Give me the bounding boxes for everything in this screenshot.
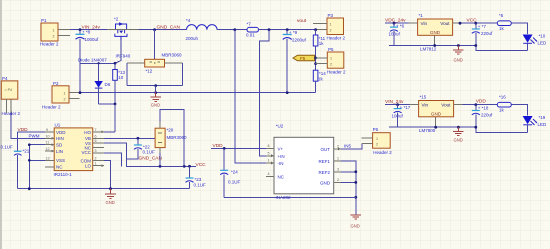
svg-text:LED: LED (538, 122, 548, 127)
svg-text:LED: LED (538, 41, 548, 46)
node C22 (137, 137, 140, 140)
pin U1 NC right (93, 147, 104, 149)
svg-text:VDC_24v: VDC_24v (385, 18, 406, 24)
svg-text:*U2: *U2 (276, 124, 284, 129)
svg-text:1: 1 (337, 157, 339, 161)
node GND_CAN (153, 28, 156, 31)
wire loop to rail (155, 86, 157, 93)
wire Q2 source jog (115, 40, 121, 63)
svg-text:2: 2 (330, 63, 332, 67)
pin reg1 Vout (453, 22, 462, 24)
svg-text:2: 2 (53, 35, 55, 39)
op-amp U2 INA282 (274, 124, 334, 200)
wire GND_CAN down to D12 (154, 30, 156, 60)
wire gnd rail 2 (389, 126, 476, 128)
pin U1 NC left (45, 166, 54, 168)
svg-text:5: 5 (268, 151, 270, 155)
ground row2 (453, 127, 464, 136)
wire ground rail (18, 188, 190, 190)
header P5 (327, 47, 346, 74)
svg-text:vout: vout (297, 18, 307, 24)
svg-text:REF2: REF2 (318, 170, 330, 175)
svg-text:2: 2 (376, 143, 378, 147)
wire VDC to Vin (385, 22, 409, 24)
pin U1.11 SD (45, 144, 54, 146)
header P3 (327, 13, 346, 41)
pin U1.1 LO (93, 165, 104, 167)
pin D12 left (127, 62, 145, 64)
svg-text:100uf: 100uf (389, 32, 401, 37)
sheet left edge (0, 0, 2, 249)
svg-text:VCC: VCC (467, 18, 478, 24)
svg-text:5: 5 (95, 139, 97, 143)
svg-text:*19: *19 (539, 115, 546, 120)
svg-text:Vout: Vout (441, 103, 451, 108)
svg-text:2200uf: 2200uf (292, 37, 307, 42)
svg-text:Vin: Vin (421, 21, 428, 26)
svg-text:Vin: Vin (422, 103, 429, 108)
pin P2.1 (69, 92, 80, 94)
wire VSS tie (29, 159, 45, 161)
pin U2 GND (334, 181, 341, 183)
wire VIN to Vin (385, 104, 410, 106)
svg-text:Header 2: Header 2 (40, 41, 59, 46)
ground mid (150, 93, 161, 102)
svg-text:LO: LO (85, 164, 92, 169)
svg-text:REF1: REF1 (318, 159, 330, 164)
svg-text:1k: 1k (318, 77, 324, 82)
wire VDD label U1 (18, 131, 45, 133)
svg-text:GND_CAN: GND_CAN (157, 25, 181, 31)
svg-text:*20: *20 (167, 128, 174, 133)
svg-text:1: 1 (53, 29, 55, 33)
svg-text:*21: *21 (23, 149, 30, 154)
ground U1 (105, 189, 116, 199)
svg-text:P1: P1 (41, 18, 47, 23)
pin U1.3 VCC (93, 152, 104, 154)
svg-text:P4: P4 (2, 76, 8, 81)
node HO riser (114, 103, 117, 106)
pin arrows U1 (52, 137, 55, 140)
resistor R13 10 (113, 63, 126, 104)
pin U1.13 VSS (45, 159, 54, 161)
svg-text:Header 2: Header 2 (327, 36, 346, 41)
svg-text:VDD: VDD (476, 98, 487, 104)
resistor R11 1k (313, 30, 325, 70)
svg-text:10: 10 (46, 134, 50, 138)
wire VS (104, 143, 196, 166)
node shunt right (268, 28, 271, 31)
svg-text:HIN: HIN (56, 136, 64, 141)
wire SD/VSS riser (28, 145, 30, 189)
svg-text:220uf: 220uf (481, 112, 493, 117)
svg-text:P2: P2 (53, 81, 59, 86)
svg-text:+ *17: + *17 (400, 105, 411, 110)
svg-text:1: 1 (268, 159, 270, 163)
capacitor C9 2200uf (283, 30, 307, 93)
svg-text:GND: GND (430, 30, 441, 35)
LED D19 (523, 115, 547, 133)
resistor R16 1k (497, 95, 511, 113)
wire LED return (476, 46, 528, 51)
node C24 (223, 147, 226, 150)
wire SD tie (29, 144, 45, 146)
svg-text:1: 1 (330, 23, 332, 27)
wire REF chain (341, 161, 356, 215)
pin U2 REF1 (334, 160, 341, 162)
wire R5 to LED (511, 23, 527, 34)
pin U1.5 VS (93, 142, 104, 144)
capacitor C21 0.1UF (1, 132, 30, 189)
svg-text:MBR3060: MBR3060 (162, 53, 183, 58)
svg-text:NC: NC (56, 165, 63, 170)
pin U2 V+ (266, 147, 274, 149)
svg-text:+ *18: + *18 (478, 106, 489, 111)
svg-text:VIN_24v: VIN_24v (385, 99, 404, 105)
svg-text:2: 2 (64, 97, 66, 101)
svg-text:6: 6 (95, 134, 97, 138)
diode D6 (94, 63, 110, 104)
svg-text:2: 2 (95, 156, 97, 160)
svg-text:3: 3 (337, 167, 339, 171)
capacitor C6 100uf (389, 23, 405, 45)
svg-text:*10: *10 (539, 33, 546, 38)
svg-text:= P4: = P4 (5, 88, 13, 92)
resistor R14 1k (313, 70, 326, 92)
pin D12 right (165, 62, 183, 64)
capacitor C22 0.1UF (127, 138, 163, 161)
svg-text:*2: *2 (114, 17, 119, 22)
pin U2 OUT (334, 148, 341, 150)
svg-text:VDD: VDD (18, 127, 29, 133)
transistor Q2 IRF940 (114, 17, 131, 59)
wire R7 to P3 (259, 29, 316, 31)
pin P4.2 (10, 99, 12, 113)
op-amp U1 IR2110-1 (54, 123, 93, 178)
svg-text:+ *9: + *9 (289, 30, 298, 35)
wire riser to HO (114, 104, 116, 132)
svg-text:GND: GND (106, 200, 115, 205)
node VIN_24v (79, 28, 82, 31)
svg-text:OUT: OUT (321, 147, 331, 152)
svg-text:*23: *23 (195, 177, 202, 182)
svg-text:2: 2 (337, 145, 339, 149)
pin P2.2 (69, 97, 80, 99)
svg-text:*1: *1 (419, 13, 424, 18)
svg-text:1k: 1k (319, 41, 325, 46)
wire bottom rail (224, 196, 356, 198)
node F5 (314, 57, 317, 60)
svg-text:2: 2 (337, 178, 339, 182)
svg-text:220uf: 220uf (481, 31, 493, 36)
pin reg1 GND (434, 35, 436, 45)
pin U1.7 HO (93, 131, 104, 133)
header P6 (373, 127, 393, 155)
svg-text:12: 12 (46, 147, 50, 151)
regulator U1 LM7812 (418, 13, 453, 51)
svg-text:VDD: VDD (56, 130, 66, 135)
wire D12 loop left (126, 63, 128, 85)
svg-text:VCC: VCC (81, 150, 91, 155)
svg-text:GND: GND (351, 224, 360, 229)
regulator U15 LM7800 (419, 95, 454, 133)
header P2 (42, 81, 69, 110)
svg-text:13: 13 (46, 156, 50, 160)
wire D6 bottom to R13 bottom (99, 103, 115, 105)
pin D20 bottom (159, 148, 161, 153)
wire Vout to R16 (463, 104, 498, 106)
wire D12 loop bottom (127, 85, 182, 87)
resistor R5 1k (497, 13, 511, 31)
svg-text:3: 3 (95, 149, 97, 153)
svg-text:GND_CAN: GND_CAN (139, 156, 163, 162)
header P1 (40, 18, 59, 46)
svg-text:*5: *5 (499, 13, 504, 18)
svg-text:Header 2: Header 2 (373, 150, 392, 155)
wire R16 to LED (511, 105, 527, 116)
svg-text:1: 1 (376, 137, 378, 141)
svg-text:SD: SD (56, 143, 63, 148)
svg-text:PWM: PWM (29, 133, 40, 138)
wire gnd rail 1 (389, 45, 476, 47)
resistor R7 0.01 (246, 22, 259, 38)
svg-text:11: 11 (46, 141, 50, 145)
pin reg2 Vout (454, 104, 463, 106)
svg-text:GND: GND (151, 103, 160, 108)
pin P5.1 (316, 57, 328, 59)
pin P5.2 (316, 63, 328, 65)
wire VCC pin (104, 153, 122, 166)
svg-text:2: 2 (330, 29, 332, 33)
capacitor C7 220uf (472, 23, 493, 45)
wire P4 to HIN (11, 113, 45, 138)
svg-text:GND: GND (320, 180, 331, 185)
svg-text:HO: HO (84, 130, 91, 135)
pin U1.2 COM (93, 159, 104, 161)
node C9 bottom (286, 91, 289, 94)
capacitor C17 100uf (392, 105, 411, 128)
pin U1.12 LIN (45, 150, 54, 152)
pin P3.2 (316, 29, 327, 31)
svg-text:P6: P6 (373, 127, 379, 132)
svg-text:+IN: +IN (278, 154, 285, 159)
pin U2 +IN (266, 155, 274, 157)
svg-text:*24: *24 (231, 169, 238, 174)
node Q2 source (114, 62, 117, 65)
pin U1.10 HIN (45, 137, 54, 139)
node D6 top (97, 62, 99, 64)
svg-text:IR2110-1: IR2110-1 (54, 172, 73, 177)
pin U2 -IN (266, 162, 274, 164)
pin reg1 Vin (409, 22, 418, 24)
diode pack D20 MBR3060 (155, 128, 187, 148)
svg-text:4: 4 (268, 172, 270, 176)
node P2 (79, 91, 82, 94)
svg-text:0.1UF: 0.1UF (143, 150, 156, 155)
svg-text:*15: *15 (420, 95, 427, 100)
wire sense minus (235, 30, 274, 163)
wire mid rail (80, 92, 287, 94)
ground row1 (453, 46, 464, 55)
svg-text:10: 10 (118, 75, 124, 80)
svg-text:0.1UF: 0.1UF (1, 144, 14, 149)
svg-text:Header 2: Header 2 (42, 105, 61, 110)
node GND mid (154, 91, 157, 94)
pin P6.2 (362, 142, 373, 144)
svg-text:*4: *4 (186, 18, 191, 23)
wire C8 to P2 (79, 63, 81, 92)
svg-text:IRF940: IRF940 (116, 54, 131, 59)
pin U1.6 VB (93, 137, 104, 139)
node shunt left (233, 28, 236, 31)
svg-text:8: 8 (268, 144, 270, 148)
pin reg2 GND (435, 117, 437, 127)
svg-text:D6: D6 (105, 82, 111, 87)
svg-text:-IN: -IN (278, 161, 284, 166)
node loop (154, 84, 157, 87)
pin P1.1 (58, 29, 70, 31)
svg-text:Diode 1N4007: Diode 1N4007 (78, 58, 107, 63)
svg-text:1k: 1k (499, 108, 505, 113)
header P4 (1, 76, 20, 116)
wire L4 to R7 (217, 29, 247, 31)
capacitor C18 220uf (472, 105, 493, 128)
pin D20 top (159, 122, 161, 129)
capacitor C23 0.1UF (186, 166, 207, 188)
capacitor C24 0.1UF (220, 148, 240, 197)
svg-text:7: 7 (95, 128, 97, 132)
svg-text:GND: GND (431, 111, 442, 116)
svg-text:1: 1 (95, 162, 97, 166)
wire D20 bottom (159, 153, 161, 166)
port F5 (293, 55, 315, 61)
svg-text:0.01: 0.01 (246, 33, 255, 38)
pin P6.1 (361, 137, 372, 139)
svg-text:9: 9 (46, 128, 48, 132)
capacitor C8 1000uf (76, 30, 100, 64)
pin P1.2 (58, 35, 70, 37)
wire Q2 to L4 (114, 29, 139, 31)
node VCC rail joins (159, 165, 162, 168)
wire HO (104, 131, 115, 133)
wire D20 top loop (160, 110, 184, 167)
svg-text:NC: NC (278, 174, 285, 179)
svg-text:P3: P3 (328, 13, 334, 18)
svg-text:+ *6: + *6 (396, 24, 405, 29)
svg-text:200uh: 200uh (186, 36, 199, 41)
wire P1 to Q2 (70, 29, 107, 31)
svg-text:GND: GND (454, 138, 463, 143)
svg-text:VCC: VCC (196, 162, 207, 168)
svg-text:F5: F5 (300, 56, 306, 61)
wire R14 to C9 node (287, 92, 315, 94)
svg-text:1k: 1k (499, 26, 505, 31)
svg-text:+ *8: + *8 (82, 30, 91, 35)
wire VB to D20 (104, 137, 155, 139)
wire node A y63 (80, 62, 115, 64)
svg-text:GND: GND (454, 58, 463, 63)
svg-text:V+: V+ (278, 146, 284, 151)
wire Vout to R5 (462, 22, 498, 24)
wire OUT to P6 (341, 143, 362, 149)
wire LED return 2 (476, 127, 528, 132)
pin arrow +IN (271, 154, 274, 157)
svg-text:LM7800: LM7800 (419, 128, 436, 133)
wire sense plus (259, 30, 274, 156)
wire COM to ground (104, 160, 111, 188)
svg-text:1: 1 (64, 91, 66, 95)
svg-text:IN5: IN5 (344, 144, 352, 149)
pin P4.1 (6, 99, 8, 113)
wire VDD to U2 (211, 147, 274, 149)
ground U2 (351, 215, 362, 219)
svg-text:LM7812: LM7812 (420, 47, 437, 52)
svg-text:1: 1 (330, 57, 332, 61)
svg-text:Vout: Vout (440, 21, 450, 26)
wire D12 loop right (182, 63, 184, 85)
svg-text:*7: *7 (247, 22, 252, 27)
svg-text:VDD: VDD (213, 143, 224, 149)
svg-text:U1: U1 (55, 123, 61, 128)
svg-text:*14: *14 (319, 71, 326, 76)
svg-text:*12: *12 (146, 69, 153, 74)
svg-text:LIN: LIN (56, 149, 63, 154)
diode pack D12 MBR3060 (145, 53, 182, 74)
svg-text:1000uf: 1000uf (85, 37, 100, 42)
inductor L4 200uh (186, 18, 218, 41)
pin reg2 Vin (410, 104, 419, 106)
pin U1.9 VDD (45, 131, 54, 133)
node C9 (286, 28, 289, 31)
pin U2 NC (266, 175, 274, 177)
pin U2 REF2 (334, 171, 341, 173)
svg-text:VSS: VSS (56, 158, 65, 163)
pin P3.1 vout (313, 23, 327, 25)
node P5.2 (314, 62, 317, 65)
svg-text:0.1UF: 0.1UF (228, 180, 241, 185)
svg-text:Header 2: Header 2 (327, 69, 346, 74)
svg-text:COM: COM (81, 158, 92, 163)
svg-text:*16: *16 (499, 95, 506, 100)
svg-text:0.1UF: 0.1UF (194, 183, 207, 188)
svg-text:P5: P5 (328, 47, 334, 52)
node P3 (314, 28, 317, 31)
LED D10 (523, 33, 547, 50)
svg-text:+ *7: + *7 (478, 24, 487, 29)
